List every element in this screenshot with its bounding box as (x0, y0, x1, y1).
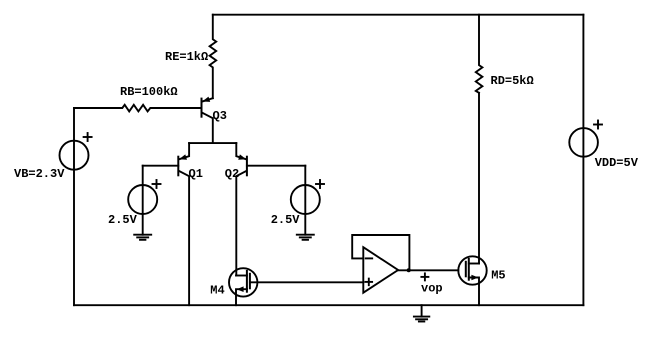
wire Q1 base (143, 165, 179, 167)
transistor Q2 (236, 143, 247, 275)
svg-text:RE=1kΩ: RE=1kΩ (165, 50, 208, 64)
wire Q2 base (247, 165, 305, 167)
svg-text:RD=5kΩ: RD=5kΩ (491, 74, 534, 88)
svg-text:2.5V: 2.5V (271, 213, 301, 227)
transistor Q3 (202, 97, 213, 144)
ground left (134, 235, 151, 240)
wire op-amp output (398, 269, 458, 271)
wire top rail (213, 14, 584, 16)
source VDD=5V (569, 15, 598, 306)
resistor RD (476, 15, 483, 93)
source VB=2.3V (60, 108, 89, 305)
wire emitter rail (189, 142, 236, 144)
ground center (414, 305, 429, 321)
source 2.5V right (291, 166, 320, 235)
mosfet M4 (229, 268, 257, 305)
source 2.5V left (128, 166, 157, 235)
wire op-amp feedback (352, 235, 409, 270)
svg-text:VB=2.3V: VB=2.3V (14, 167, 65, 181)
mosfet M5 (458, 256, 486, 305)
svg-text:Q3: Q3 (213, 109, 227, 123)
plus VB (84, 133, 92, 141)
plus VDD (594, 121, 602, 129)
plus 2.5V right (316, 180, 324, 188)
svg-text:VDD=5V: VDD=5V (595, 156, 639, 170)
svg-text:M4: M4 (210, 284, 224, 298)
transistor Q1 (178, 143, 189, 305)
svg-text:M5: M5 (491, 269, 505, 283)
wire bottom rail (74, 304, 583, 306)
svg-text:2.5V: 2.5V (108, 213, 138, 227)
svg-text:vop: vop (421, 282, 443, 296)
svg-text:Q1: Q1 (189, 167, 203, 181)
node vop dot (407, 268, 411, 272)
svg-text:Q2: Q2 (225, 167, 239, 181)
wire M4 gate to op-amp (250, 281, 363, 283)
resistor RE (210, 15, 217, 99)
resistor RB (74, 105, 202, 112)
wire M5 drain up (478, 93, 480, 264)
ground right (297, 235, 314, 240)
plus vop (421, 273, 428, 280)
plus 2.5V left (153, 180, 161, 188)
op-amp U1 (363, 247, 398, 293)
svg-text:RB=100kΩ: RB=100kΩ (120, 85, 178, 99)
